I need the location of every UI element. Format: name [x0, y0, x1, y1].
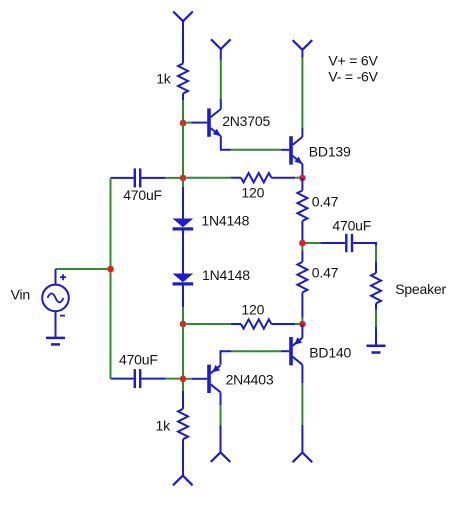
svg-text:470uF: 470uF	[332, 217, 371, 233]
node A (Q1 base junction)	[180, 120, 187, 127]
svg-text:1k: 1k	[156, 417, 172, 433]
resistor Speaker	[371, 262, 381, 310]
wire node A to Q1 base	[186, 122, 191, 124]
wire node D to C3	[305, 242, 320, 244]
wire Q3 collector to V-	[301, 365, 303, 383]
node C (Q2 emitter junction)	[299, 175, 306, 182]
wire Q4 emitter to Q3 base	[221, 351, 232, 365]
transistor Q4 2N4403	[209, 365, 221, 393]
wire R4 to node E	[301, 318, 303, 325]
resistor R6 1k (bottom)	[178, 391, 188, 476]
wire C2 to node F	[165, 378, 183, 380]
resistor R1 1k	[178, 64, 188, 101]
capacitor C2 470uF (input bottom)	[111, 369, 166, 388]
wire node B to D1	[182, 180, 184, 187]
svg-text:470uF: 470uF	[123, 187, 162, 203]
node E2 (diode bottom junction)	[180, 321, 187, 328]
node F (bottom cap junction)	[180, 376, 187, 383]
wire node B to R2	[186, 177, 231, 179]
svg-text:120: 120	[241, 185, 264, 201]
source Vin (AC)	[42, 269, 69, 337]
node D (output junction)	[299, 240, 306, 247]
svg-text:0.47: 0.47	[312, 194, 339, 210]
power symbol V+ (Q1 collector)	[211, 39, 231, 109]
wire node A to node B	[182, 123, 184, 178]
wire D1 to D2	[182, 231, 184, 274]
svg-text:0.47: 0.47	[312, 265, 339, 281]
svg-text:Speaker: Speaker	[395, 281, 446, 297]
svg-text:V+ = 6V: V+ = 6V	[328, 53, 378, 69]
transistor Q2 BD139	[291, 136, 302, 164]
wire Q2 emitter to node C	[301, 164, 303, 178]
resistor R2 120 (top)	[231, 173, 295, 182]
svg-text:2N4403: 2N4403	[226, 371, 274, 387]
ground (Vin)	[46, 338, 65, 345]
transistor Q1 2N3705	[209, 108, 221, 136]
wire node E2 to R5	[186, 323, 231, 325]
resistor R5 120 (bottom)	[231, 319, 295, 328]
wire node E to Q3 emitter	[301, 324, 303, 338]
power symbol V- (Q4 collector)	[211, 452, 231, 462]
wire R1 bottom to node A	[182, 100, 184, 123]
wire C1 to node B	[165, 177, 183, 179]
node B (top cap junction)	[180, 175, 187, 182]
svg-text:1N4148: 1N4148	[202, 267, 250, 283]
ground (speaker)	[367, 327, 386, 353]
svg-text:BD140: BD140	[309, 345, 351, 361]
wire node F to R6	[182, 382, 184, 391]
wire Vin to input node	[56, 268, 111, 270]
wire node D to R4	[301, 246, 303, 251]
power symbol V+ (Q2 collector)	[293, 40, 313, 137]
node G (input junction)	[107, 266, 114, 273]
power symbol V- (below R6)	[173, 476, 193, 486]
wire Q1 emitter to Q2 base	[221, 136, 231, 150]
resistor R3 0.47 (top)	[297, 178, 307, 243]
capacitor C1 470uF (input top)	[111, 168, 166, 187]
wire left rail (C1 to C2)	[110, 178, 112, 379]
wire R5 to node E	[295, 323, 302, 325]
node E (Q3 emitter junction)	[299, 321, 306, 328]
svg-text:Vin: Vin	[11, 287, 30, 303]
wire D2 to node E2	[182, 286, 184, 308]
svg-text:2N3705: 2N3705	[222, 113, 270, 129]
capacitor C3 470uF (output)	[320, 234, 376, 252]
svg-text:470uF: 470uF	[119, 351, 158, 367]
power symbol V+ (above R1 1k)	[173, 12, 193, 64]
svg-text:1k: 1k	[156, 70, 172, 86]
svg-text:120: 120	[241, 302, 264, 318]
wire R2 to node C	[295, 177, 302, 179]
wire Q4 collector to V-	[220, 392, 222, 405]
resistor R4 0.47 (bottom)	[297, 250, 307, 317]
svg-text:BD139: BD139	[309, 143, 351, 159]
svg-text:1N4148: 1N4148	[201, 212, 249, 228]
wire C3 to speaker	[375, 246, 377, 262]
wire node E2 to node F	[182, 324, 184, 379]
diode D2 1N4148	[173, 274, 194, 286]
power symbol V- (Q3 collector)	[293, 453, 313, 463]
svg-text:V- = -6V: V- = -6V	[328, 68, 378, 84]
transistor Q3 BD140	[291, 337, 302, 365]
diode D1 1N4148	[173, 219, 194, 231]
wire node F to Q4 base	[186, 378, 192, 380]
wire speaker to ground	[375, 310, 377, 327]
